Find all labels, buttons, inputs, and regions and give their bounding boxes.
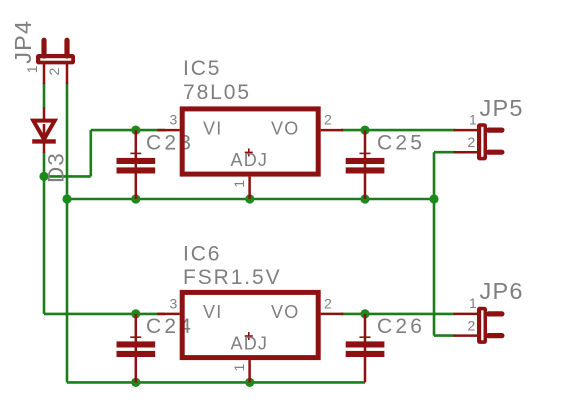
connector JP6 pin2 lead <box>454 334 478 337</box>
wire JP5 pin2 horizontal <box>434 151 455 154</box>
junction C25 top <box>360 126 369 135</box>
svg-text:2: 2 <box>468 317 476 333</box>
svg-text:JP4: JP4 <box>10 20 36 64</box>
label JP6 <box>480 278 524 304</box>
capacitor C25 <box>346 130 385 199</box>
IC5 pin 1 (ADJ) <box>248 177 251 199</box>
connector JP4 pin1 lead <box>43 64 46 84</box>
junction C23 top <box>131 126 140 135</box>
wire D3 cathode to node A <box>43 152 46 176</box>
pin number 1 (JP5) <box>469 112 477 128</box>
svg-text:1: 1 <box>231 364 247 372</box>
IC5 pin name VO <box>271 119 299 139</box>
svg-text:2: 2 <box>324 296 332 312</box>
value FSR1.5V <box>183 266 282 289</box>
wire JP5 pin2 vertical <box>433 152 436 199</box>
junction C24 bottom / bottom bus <box>131 378 140 387</box>
IC6 pin name VO <box>271 302 299 322</box>
connector JP6 pin2 stub <box>489 333 502 338</box>
label IC6 <box>183 243 221 266</box>
IC5 pin name ADJ <box>231 150 269 170</box>
pin number 2 (JP5) <box>468 134 476 150</box>
wire bottom bus <box>67 381 365 384</box>
wire JP4 pin2 down rail <box>66 83 69 382</box>
svg-text:2: 2 <box>468 134 476 150</box>
svg-text:C24: C24 <box>146 315 194 338</box>
label IC5 <box>183 57 221 80</box>
IC6 pin 2 (VO) <box>321 313 344 316</box>
pin number 2 (IC6) <box>324 296 332 312</box>
wire node A to riser <box>44 175 91 178</box>
junction C24 top <box>131 309 140 318</box>
pin number 2 (JP6) <box>468 317 476 333</box>
value 78L05 <box>183 81 251 104</box>
IC6 pin 1 (ADJ) <box>248 360 251 382</box>
junction node A (D3 / rails) <box>39 172 48 181</box>
diode D3 <box>32 107 56 152</box>
connector JP5 body <box>477 123 487 160</box>
IC6 pin name ADJ <box>231 333 269 353</box>
pin number 3 (IC6) <box>170 296 178 312</box>
pin number 3 (IC5) <box>170 112 178 128</box>
svg-text:1: 1 <box>469 295 477 311</box>
svg-text:VO: VO <box>271 119 299 139</box>
pin number 1 (IC6) <box>231 364 247 372</box>
connector JP4 pin2 stub <box>64 40 69 56</box>
connector JP5 pin1 lead <box>454 129 478 132</box>
svg-text:78L05: 78L05 <box>183 81 251 104</box>
IC5 pin 2 (VO) <box>321 129 344 132</box>
junction C25 bottom / mid bus <box>360 194 369 203</box>
wire mid bus <box>67 198 434 201</box>
junction JP rail / mid bus <box>429 194 438 203</box>
connector JP5 pin1 stub <box>489 128 502 133</box>
label C24 <box>146 315 194 338</box>
IC5 pin name VI <box>203 119 222 139</box>
wire IC6 VO to JP6 pin1 <box>341 313 455 316</box>
IC6 pin name VI <box>203 302 222 322</box>
wire JP4 pin1 to D3 anode <box>43 83 46 109</box>
connector JP4 pin1 stub <box>41 40 46 56</box>
svg-text:VI: VI <box>203 302 222 322</box>
pin number 1 (IC5) <box>231 180 247 188</box>
svg-text:2: 2 <box>46 68 62 76</box>
junction IC6 ADJ / bottom bus <box>245 378 254 387</box>
label C25 <box>377 132 425 155</box>
connector JP5 pin2 lead <box>454 151 478 154</box>
svg-text:ADJ: ADJ <box>231 333 269 353</box>
wire JP6 pin2 horizontal <box>434 334 455 337</box>
svg-text:C26: C26 <box>377 315 425 338</box>
svg-text:JP5: JP5 <box>480 95 524 121</box>
label JP5 <box>480 95 524 121</box>
label C23 <box>146 132 194 155</box>
wire node A down left rail <box>43 176 46 314</box>
svg-text:VO: VO <box>271 302 299 322</box>
svg-text:1: 1 <box>469 112 477 128</box>
connector JP4 body <box>36 54 75 64</box>
label D3 <box>43 152 68 183</box>
wire to IC5 VI pin <box>91 129 165 132</box>
wire JP6 pin2 vertical <box>433 199 436 336</box>
svg-text:IC5: IC5 <box>183 57 221 80</box>
pin number 2 (IC5) <box>324 112 332 128</box>
junction IC5 ADJ / mid bus <box>245 194 254 203</box>
junction C26 top <box>360 309 369 318</box>
wire riser up to VI row <box>90 130 93 176</box>
regulator box IC6 <box>182 292 318 357</box>
svg-text:FSR1.5V: FSR1.5V <box>183 266 282 289</box>
connector JP5 pin2 stub <box>489 150 502 155</box>
junction C23 bottom / mid bus <box>131 194 140 203</box>
svg-text:1: 1 <box>231 180 247 188</box>
wire IC5 VO to JP5 pin1 <box>341 129 455 132</box>
connector JP6 pin1 lead <box>454 313 478 316</box>
svg-text:3: 3 <box>170 112 178 128</box>
svg-text:IC6: IC6 <box>183 243 221 266</box>
svg-text:VI: VI <box>203 119 222 139</box>
connector JP6 pin1 stub <box>489 311 502 316</box>
label JP4 <box>10 20 36 64</box>
IC6 pin 3 (VI) <box>157 313 179 316</box>
op-amp-style regulator box IC5 <box>182 109 318 174</box>
svg-text:ADJ: ADJ <box>231 150 269 170</box>
pin number 1 (JP6) <box>469 295 477 311</box>
label C26 <box>377 315 425 338</box>
svg-text:C25: C25 <box>377 132 425 155</box>
wire left rail to IC6 VI pin <box>44 313 165 316</box>
svg-text:C23: C23 <box>146 132 194 155</box>
pin number 1 (JP4) <box>24 65 40 73</box>
IC5 pin 3 (VI) <box>157 129 179 132</box>
junction left rail / mid bus <box>62 194 71 203</box>
connector JP4 pin2 lead <box>66 64 69 84</box>
pin number 2 (JP4) <box>46 68 62 76</box>
svg-text:3: 3 <box>170 296 178 312</box>
svg-text:1: 1 <box>24 65 40 73</box>
capacitor C26 <box>346 314 385 383</box>
IC5 origin cross <box>245 148 253 156</box>
capacitor C24 <box>117 314 156 383</box>
svg-text:D3: D3 <box>43 152 68 183</box>
svg-text:2: 2 <box>324 112 332 128</box>
connector JP6 body <box>477 307 487 344</box>
capacitor C23 <box>117 130 156 199</box>
IC6 origin cross <box>245 332 253 340</box>
svg-text:JP6: JP6 <box>480 278 524 304</box>
